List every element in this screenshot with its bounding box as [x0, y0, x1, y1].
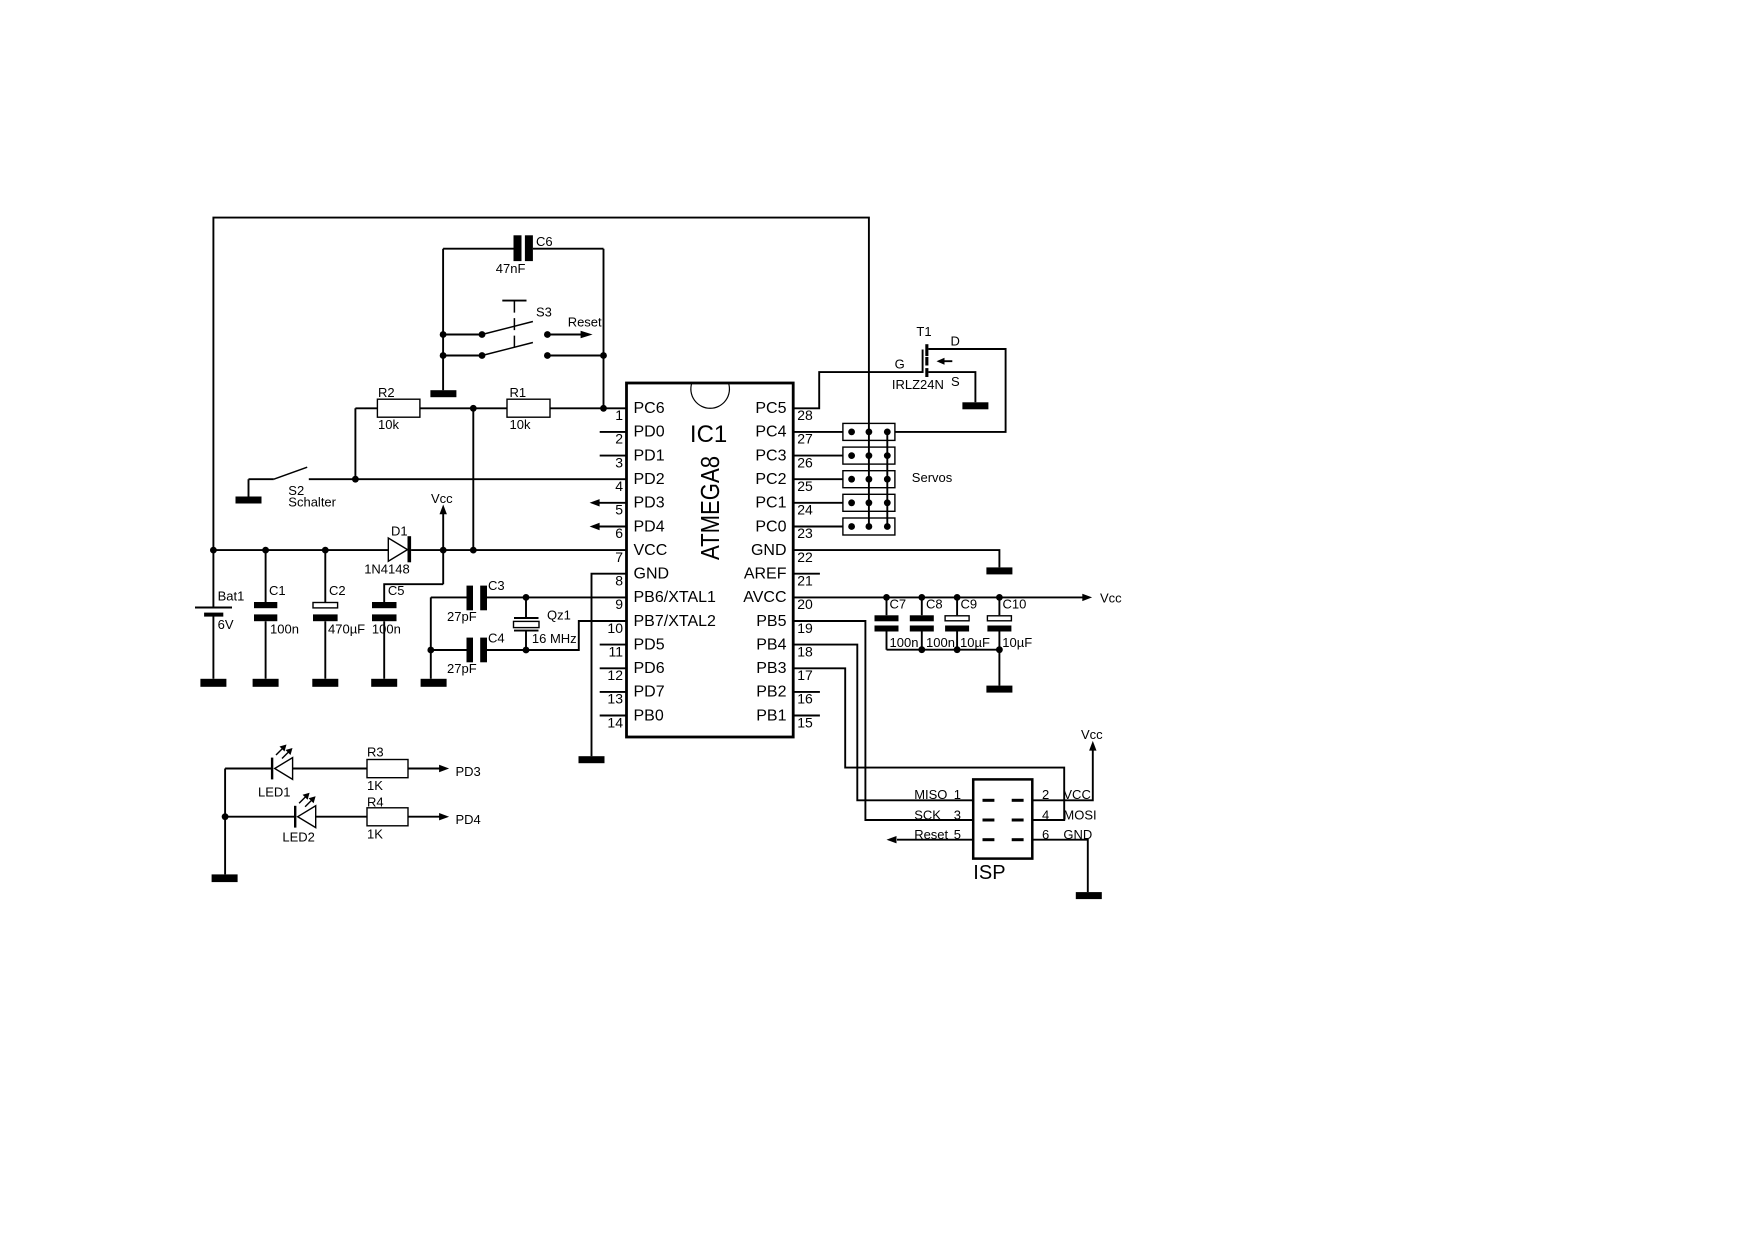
svg-text:PB1: PB1 [756, 707, 786, 724]
svg-text:MISO: MISO [914, 787, 947, 802]
svg-text:Vcc: Vcc [431, 491, 453, 506]
svg-text:VCC: VCC [1063, 787, 1090, 802]
svg-text:20: 20 [797, 596, 813, 612]
svg-text:S3: S3 [536, 305, 552, 320]
svg-text:C1: C1 [269, 583, 286, 598]
svg-text:PB2: PB2 [756, 684, 786, 701]
svg-text:15: 15 [797, 714, 813, 730]
svg-text:C5: C5 [388, 583, 405, 598]
svg-text:Vcc: Vcc [1100, 591, 1122, 606]
svg-text:C8: C8 [926, 597, 943, 612]
svg-text:3: 3 [615, 454, 623, 470]
svg-text:100n: 100n [270, 621, 299, 636]
svg-text:PB5: PB5 [756, 613, 786, 630]
svg-text:12: 12 [607, 667, 623, 683]
svg-text:G: G [895, 356, 905, 371]
svg-text:16 MHz: 16 MHz [532, 631, 577, 646]
svg-text:PD4: PD4 [456, 812, 481, 827]
svg-text:PD4: PD4 [634, 518, 665, 535]
svg-text:4: 4 [1042, 807, 1049, 822]
svg-text:5: 5 [954, 827, 961, 842]
svg-text:2: 2 [1042, 787, 1049, 802]
svg-text:SCK: SCK [914, 807, 941, 822]
svg-text:T1: T1 [916, 324, 931, 339]
svg-text:VCC: VCC [634, 542, 668, 559]
svg-text:470µF: 470µF [328, 621, 365, 636]
svg-text:PC3: PC3 [755, 447, 786, 464]
svg-text:23: 23 [797, 525, 813, 541]
svg-text:C4: C4 [488, 630, 505, 645]
svg-text:7: 7 [615, 549, 623, 565]
svg-text:1K: 1K [367, 778, 383, 793]
svg-text:GND: GND [1063, 827, 1092, 842]
svg-text:PD6: PD6 [634, 660, 665, 677]
svg-text:10k: 10k [510, 417, 531, 432]
svg-text:2: 2 [615, 431, 623, 447]
svg-text:5: 5 [615, 502, 623, 518]
svg-text:25: 25 [797, 478, 813, 494]
svg-text:Reset: Reset [914, 827, 948, 842]
svg-text:47nF: 47nF [496, 261, 526, 276]
svg-text:6: 6 [615, 525, 623, 541]
svg-text:GND: GND [751, 542, 787, 559]
svg-text:PC4: PC4 [755, 424, 786, 441]
svg-text:19: 19 [797, 620, 813, 636]
svg-text:D: D [951, 334, 960, 349]
svg-text:AVCC: AVCC [743, 589, 786, 606]
svg-text:PC2: PC2 [755, 471, 786, 488]
svg-text:100n: 100n [890, 635, 919, 650]
svg-text:ISP: ISP [973, 862, 1005, 884]
svg-text:S: S [951, 374, 960, 389]
svg-text:27pF: 27pF [447, 609, 477, 624]
svg-text:Qz1: Qz1 [547, 608, 571, 623]
svg-text:C3: C3 [488, 578, 505, 593]
svg-text:4: 4 [615, 478, 623, 494]
svg-text:R4: R4 [367, 795, 384, 810]
svg-text:R2: R2 [378, 385, 395, 400]
svg-text:9: 9 [615, 596, 623, 612]
svg-text:Vcc: Vcc [1081, 727, 1103, 742]
svg-text:IRLZ24N: IRLZ24N [892, 377, 944, 392]
svg-text:PB3: PB3 [756, 660, 786, 677]
svg-text:PD2: PD2 [634, 471, 665, 488]
svg-text:10k: 10k [378, 417, 399, 432]
svg-text:Schalter: Schalter [288, 495, 336, 510]
svg-text:Bat1: Bat1 [218, 589, 245, 604]
svg-text:PB6/XTAL1: PB6/XTAL1 [634, 589, 717, 606]
svg-text:PB4: PB4 [756, 636, 786, 653]
svg-text:13: 13 [607, 691, 623, 707]
svg-text:AREF: AREF [744, 566, 787, 583]
svg-text:8: 8 [615, 573, 623, 589]
svg-text:C10: C10 [1003, 597, 1027, 612]
svg-text:GND: GND [634, 566, 670, 583]
svg-text:C2: C2 [329, 583, 346, 598]
svg-text:100n: 100n [926, 635, 955, 650]
svg-text:LED2: LED2 [282, 829, 315, 844]
svg-text:Servos: Servos [912, 470, 953, 485]
svg-text:6V: 6V [218, 617, 234, 632]
svg-text:Reset: Reset [568, 315, 602, 330]
svg-text:PD5: PD5 [634, 636, 665, 653]
svg-text:LED1: LED1 [258, 784, 291, 799]
svg-text:10: 10 [607, 620, 623, 636]
svg-text:26: 26 [797, 454, 813, 470]
svg-text:22: 22 [797, 549, 813, 565]
svg-text:1: 1 [615, 407, 623, 423]
svg-text:C7: C7 [890, 597, 907, 612]
svg-text:MOSI: MOSI [1063, 807, 1096, 822]
svg-text:14: 14 [607, 714, 623, 730]
svg-text:11: 11 [608, 643, 623, 659]
svg-text:1K: 1K [367, 827, 383, 842]
svg-text:PD1: PD1 [634, 447, 665, 464]
svg-text:17: 17 [797, 667, 813, 683]
svg-text:ATMEGA8: ATMEGA8 [695, 456, 725, 560]
svg-text:PC0: PC0 [755, 518, 786, 535]
svg-text:C6: C6 [536, 234, 553, 249]
svg-text:IC1: IC1 [690, 421, 727, 448]
svg-text:PD3: PD3 [634, 495, 665, 512]
svg-text:27: 27 [797, 431, 813, 447]
svg-text:16: 16 [797, 691, 813, 707]
svg-text:27pF: 27pF [447, 661, 477, 676]
svg-text:18: 18 [797, 643, 813, 659]
svg-text:10µF: 10µF [1002, 635, 1032, 650]
svg-text:D1: D1 [391, 524, 408, 539]
svg-text:C9: C9 [961, 597, 978, 612]
svg-text:PD7: PD7 [634, 684, 665, 701]
svg-text:24: 24 [797, 502, 813, 518]
svg-text:PD0: PD0 [634, 424, 665, 441]
svg-text:1N4148: 1N4148 [364, 561, 410, 576]
svg-text:3: 3 [954, 807, 961, 822]
svg-text:10µF: 10µF [960, 635, 990, 650]
svg-text:PC1: PC1 [755, 495, 786, 512]
svg-text:21: 21 [797, 573, 813, 589]
svg-text:28: 28 [797, 407, 813, 423]
svg-text:R1: R1 [510, 385, 527, 400]
svg-text:6: 6 [1042, 827, 1049, 842]
svg-text:PC6: PC6 [634, 400, 665, 417]
svg-text:PD3: PD3 [456, 764, 481, 779]
svg-text:PC5: PC5 [755, 400, 786, 417]
svg-text:1: 1 [954, 787, 961, 802]
svg-text:R3: R3 [367, 745, 384, 760]
svg-text:PB0: PB0 [634, 707, 664, 724]
svg-text:PB7/XTAL2: PB7/XTAL2 [634, 613, 717, 630]
svg-text:100n: 100n [372, 621, 401, 636]
